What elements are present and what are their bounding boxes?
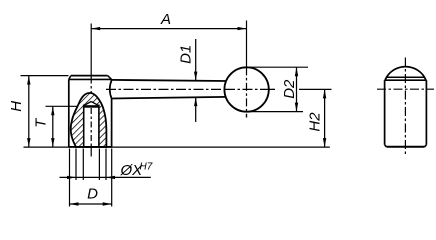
side view bottom edge <box>386 146 424 148</box>
dimension D2 arrow bottom <box>295 103 298 112</box>
dimension D2 line <box>296 67 298 111</box>
dimension A arrow left <box>91 27 100 30</box>
dimension D1 line upper <box>195 39 197 81</box>
boss outline (bell) <box>71 93 107 147</box>
head top edge <box>71 75 108 77</box>
svg-text:D2: D2 <box>281 79 298 99</box>
dimension D arrow left <box>70 202 79 205</box>
side view chord line <box>387 76 424 78</box>
svg-text:H7: H7 <box>140 162 153 173</box>
bore left edge <box>83 105 85 147</box>
side view chord-corner connector left <box>385 77 387 80</box>
dimension H2 arrow bottom <box>323 138 326 147</box>
extension line D right <box>111 149 113 207</box>
centerline ball vertical (dash-dot, over ball) <box>246 67 248 117</box>
centerline ball horizontal (dash-dot, redrawn over ball) <box>225 88 275 90</box>
dimension T arrow bottom <box>51 138 54 147</box>
centerline stub below head <box>90 147 92 157</box>
side view vertical centerline <box>404 58 406 156</box>
extension line bore right <box>98 149 100 181</box>
dimension D line <box>70 203 112 205</box>
dimension D1 arrow bottom <box>194 97 197 106</box>
side view bottom chamfer right <box>425 145 427 147</box>
dimension OX arrow left <box>67 176 76 179</box>
extension line bore left <box>82 149 84 181</box>
bore (white) <box>84 106 99 146</box>
side view chord-corner connector right <box>424 77 426 80</box>
svg-text:H: H <box>8 101 25 112</box>
side view right edge <box>425 80 427 145</box>
dimension A line <box>91 28 246 30</box>
extension line head top (left) <box>21 75 69 77</box>
head top-left chamfer <box>69 76 71 80</box>
handle bottom edge <box>112 97 227 99</box>
dimension H2 arrow top <box>323 89 326 98</box>
extension line D left <box>69 149 71 207</box>
dimension D1 arrow top <box>194 72 197 81</box>
ball knob <box>224 67 268 111</box>
extension line handle axis right (H2 reference) <box>299 88 332 90</box>
side view horizontal centerline <box>377 88 434 90</box>
svg-text:A: A <box>160 11 171 28</box>
dimension T arrow top <box>51 106 54 115</box>
dimension H2 line <box>324 89 326 147</box>
svg-text:H2: H2 <box>307 112 324 132</box>
extension line boss right (OX tip) <box>105 149 107 181</box>
dimension D2 arrow top <box>295 67 298 76</box>
side view left edge <box>384 80 386 145</box>
dimension H line <box>28 76 30 148</box>
dimension T line <box>52 106 54 147</box>
extension line ball top <box>247 66 309 68</box>
dimension H arrow bottom <box>27 138 30 147</box>
centerline ball vertical (dash-dot) <box>246 67 248 117</box>
dimension D1 line lower <box>195 97 197 122</box>
head top-right chamfer <box>108 76 112 80</box>
thread cap (blackened cone) <box>84 105 99 108</box>
hatched section of head boss <box>65 88 113 150</box>
extension line head axis (above head) <box>90 24 92 76</box>
head bottom edge <box>69 146 112 148</box>
svg-text:D1: D1 <box>177 45 194 64</box>
centerline head bore (dash-dot) <box>90 76 92 147</box>
svg-text:D: D <box>87 186 98 203</box>
extension line ball bottom <box>248 111 303 113</box>
centerline handle axis (dash-dot) <box>106 88 275 90</box>
dimension OX arrow right <box>106 176 115 179</box>
side view top edge <box>385 79 427 81</box>
dimension H arrow top <box>27 76 30 85</box>
head shoulder line <box>69 78 112 80</box>
dimension D arrow right <box>103 202 112 205</box>
extension line bore top (T reference) <box>46 105 78 107</box>
dimension A arrow right <box>238 27 247 30</box>
extension line boss left (OX tip) <box>75 149 77 181</box>
head right edge upper + neck fillet + lower <box>110 79 112 146</box>
side view bottom chamfer left <box>385 145 387 147</box>
centerline in bore <box>90 108 92 146</box>
extension line ball axis (above ball) <box>246 21 248 68</box>
dimension OX line <box>60 176 151 178</box>
baseline (head bottom extended both sides) <box>24 146 330 148</box>
side view dome arc <box>385 67 426 80</box>
bore right edge <box>98 105 100 147</box>
handle top edge <box>112 80 227 81</box>
head left edge <box>68 79 70 146</box>
